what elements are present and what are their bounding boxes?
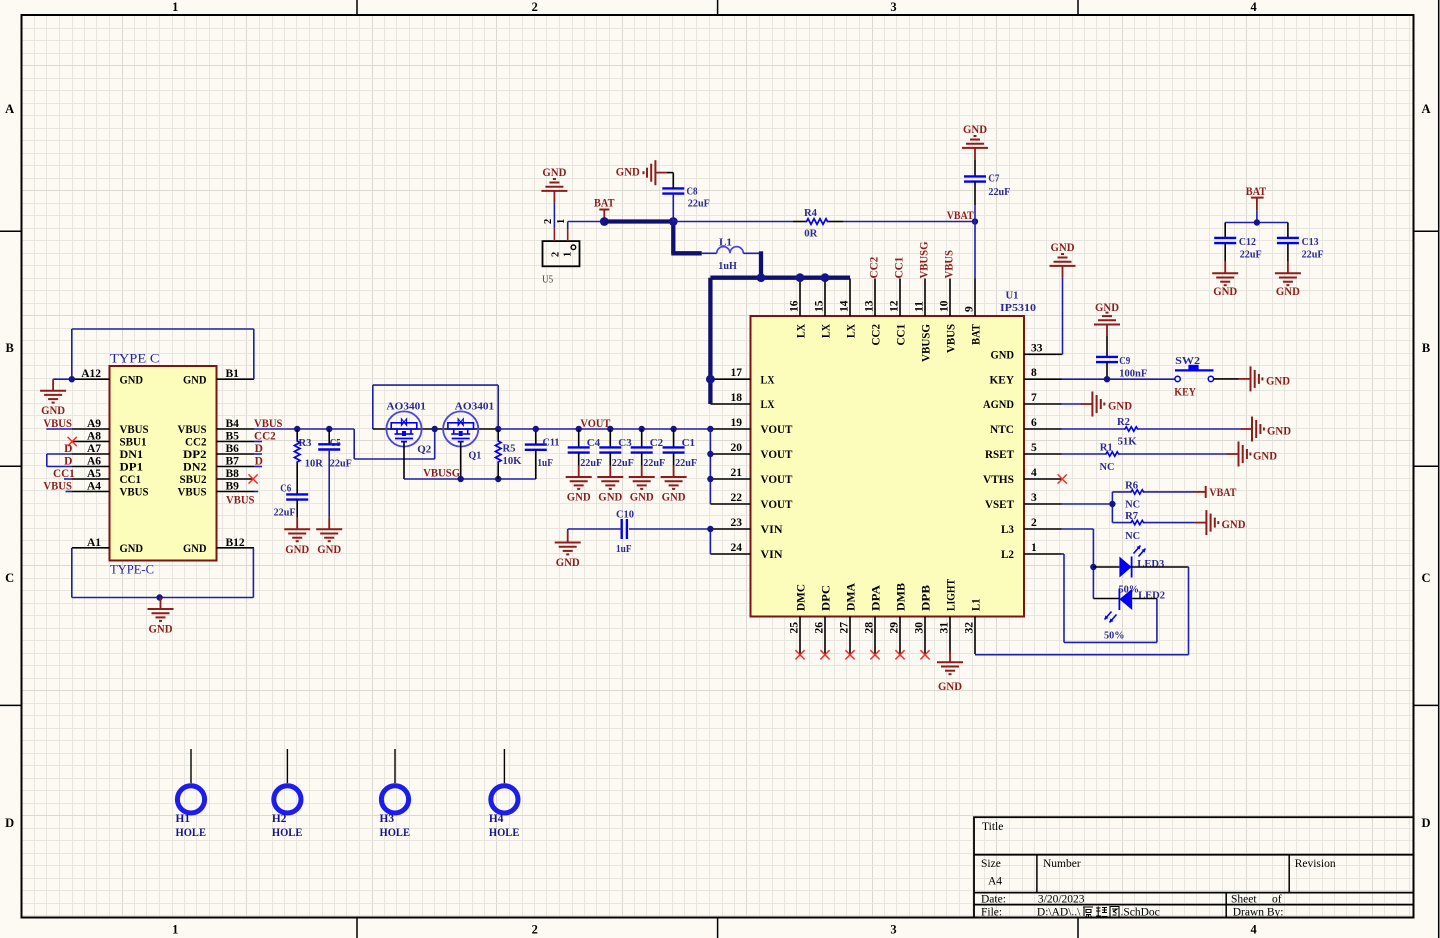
- svg-text:C9: C9: [1119, 355, 1130, 367]
- wire VIN: [629, 529, 710, 554]
- svg-text:B5: B5: [226, 431, 240, 443]
- svg-text:R1: R1: [1100, 442, 1113, 454]
- svg-text:C13: C13: [1302, 236, 1319, 248]
- svg-text:17: 17: [731, 367, 743, 379]
- junction C2 top: [639, 426, 645, 432]
- svg-text:C11: C11: [543, 437, 560, 449]
- wire C12-C13 bus: [1225, 222, 1288, 224]
- junction VBAT: [972, 218, 978, 224]
- hole H3: [380, 749, 411, 839]
- svg-text:22uF: 22uF: [580, 457, 602, 469]
- wire A7-A6 loop: [47, 454, 72, 467]
- svg-text:CC1: CC1: [894, 256, 906, 278]
- wire L3 to LEDs: [1062, 529, 1120, 599]
- svg-text:3: 3: [890, 0, 896, 14]
- svg-text:2: 2: [543, 219, 554, 224]
- svg-text:H4: H4: [489, 813, 504, 825]
- resistor R6 NC: [1112, 480, 1193, 511]
- svg-text:4: 4: [1250, 923, 1257, 937]
- svg-text:21: 21: [731, 467, 743, 479]
- ground GND under C13: [1275, 262, 1301, 298]
- svg-text:22uF: 22uF: [675, 457, 697, 469]
- wire Q2 gate: [403, 442, 405, 479]
- junction LED3 anode: [1090, 564, 1096, 570]
- capacitor C13 22uF: [1277, 223, 1324, 262]
- svg-text:IP5310: IP5310: [1000, 302, 1037, 314]
- svg-text:GND: GND: [183, 541, 207, 555]
- svg-text:L1: L1: [969, 599, 983, 612]
- svg-text:GND: GND: [542, 167, 566, 179]
- capacitor C8 22uF: [655, 173, 710, 222]
- svg-text:Revision: Revision: [1295, 858, 1336, 870]
- svg-text:GND: GND: [1266, 376, 1290, 388]
- svg-text:D: D: [255, 456, 263, 468]
- svg-text:5: 5: [1031, 442, 1037, 454]
- svg-text:32: 32: [964, 622, 976, 634]
- svg-text:L2: L2: [1001, 547, 1014, 561]
- svg-text:Size: Size: [981, 858, 1001, 870]
- power port BAT right: [1246, 186, 1267, 223]
- svg-text:16: 16: [789, 300, 801, 312]
- transistor Q2 AO3401: [386, 401, 431, 456]
- svg-text:A4: A4: [87, 481, 101, 493]
- svg-text:C8: C8: [687, 186, 698, 198]
- svg-text:Q1: Q1: [468, 450, 481, 462]
- svg-text:GND: GND: [556, 557, 580, 569]
- svg-text:L3: L3: [1001, 522, 1014, 536]
- svg-text:H2: H2: [272, 813, 287, 825]
- svg-text:NC: NC: [1125, 530, 1140, 542]
- svg-text:BAT: BAT: [594, 198, 615, 210]
- junction C8 bottom: [669, 217, 678, 226]
- wire drain-source line: [373, 428, 498, 430]
- capacitor C6 22uF: [274, 483, 309, 519]
- resistor R3 10R: [294, 429, 323, 494]
- net VBUSG rail: [404, 468, 536, 480]
- title block: [974, 817, 1414, 918]
- svg-text:27: 27: [839, 622, 851, 634]
- svg-text:11: 11: [914, 301, 926, 312]
- svg-text:GND: GND: [630, 492, 654, 504]
- net label VBUS (B9): [226, 492, 258, 507]
- junction VOUT pin19: [707, 426, 713, 432]
- svg-text:GND: GND: [1108, 401, 1132, 413]
- svg-text:2: 2: [1031, 517, 1037, 529]
- svg-text:1: 1: [172, 923, 178, 937]
- svg-text:23: 23: [731, 517, 743, 529]
- svg-text:VBUSG: VBUSG: [919, 324, 933, 362]
- svg-text:NTC: NTC: [990, 422, 1014, 436]
- wire VBUS B4 to MOSFETs: [254, 429, 435, 459]
- svg-text:RSET: RSET: [985, 447, 1014, 461]
- inductor L1 1uH: [702, 237, 761, 273]
- junction C1 top: [670, 426, 676, 432]
- svg-text:2: 2: [532, 923, 538, 937]
- svg-text:GND: GND: [317, 544, 341, 556]
- svg-text:GND: GND: [120, 541, 144, 555]
- svg-text:Number: Number: [1043, 858, 1081, 870]
- connector U5: [542, 219, 579, 286]
- ground GND under C12: [1212, 262, 1238, 298]
- switch SW2: [1174, 355, 1213, 399]
- net label CC1 (pin12): [894, 256, 906, 278]
- svg-text:1uF: 1uF: [537, 457, 553, 469]
- svg-text:C2: C2: [650, 437, 664, 449]
- junction pin21: [707, 476, 713, 482]
- wire Q2 drain loop: [373, 385, 498, 429]
- svg-text:VBAT: VBAT: [947, 210, 974, 222]
- svg-text:D:\AD\..\: D:\AD\..\: [1037, 907, 1081, 919]
- wire SW2 to GND: [1214, 378, 1251, 380]
- svg-text:TYPE-C: TYPE-C: [110, 563, 154, 577]
- wire VBAT to pin9: [974, 222, 976, 279]
- ground GND under C1: [661, 466, 687, 504]
- capacitor C10 1uF: [568, 509, 635, 555]
- wire VOUT bus: [498, 428, 710, 430]
- junction L1 bottom: [757, 273, 766, 282]
- junction C11 top: [533, 426, 539, 432]
- svg-text:10R: 10R: [305, 458, 324, 470]
- svg-text:C10: C10: [616, 509, 634, 521]
- junction A12: [69, 376, 75, 382]
- resistor R4 0R: [673, 207, 975, 240]
- svg-text:VBUSG: VBUSG: [423, 468, 460, 480]
- svg-text:22uF: 22uF: [643, 457, 665, 469]
- ground GND at pin33: [1050, 242, 1076, 354]
- svg-text:File:: File:: [981, 907, 1002, 919]
- ground GND below TYPE-C: [148, 598, 174, 636]
- capacitor C5 22uF: [318, 429, 352, 518]
- no-connect pin27: [845, 650, 854, 659]
- svg-text:AO3401: AO3401: [386, 401, 426, 413]
- svg-text:1: 1: [172, 0, 178, 14]
- junction VBUSG R5: [495, 476, 501, 482]
- svg-text:H3: H3: [380, 813, 395, 825]
- net label D (A7): [64, 443, 72, 455]
- resistor R5 10K: [495, 429, 522, 479]
- svg-text:A12: A12: [81, 368, 101, 380]
- wire A12-B1 gnd loop: [53, 329, 254, 379]
- svg-text:3/20/2023: 3/20/2023: [1038, 894, 1085, 906]
- svg-text:18: 18: [731, 392, 743, 404]
- hole H4: [489, 749, 520, 839]
- svg-text:GND: GND: [1267, 426, 1291, 438]
- no-connect B8: [249, 474, 258, 483]
- wire U5 pin1 to BAT bus: [568, 222, 605, 230]
- svg-text:GND: GND: [183, 372, 207, 386]
- svg-text:LX: LX: [844, 324, 858, 338]
- svg-text:28: 28: [864, 622, 876, 634]
- thick wire L1 to LX pins: [710, 251, 850, 404]
- power port BAT: [594, 198, 615, 222]
- svg-text:KEY: KEY: [990, 372, 1015, 386]
- svg-text:R3: R3: [299, 437, 312, 449]
- ground GND under C5: [316, 518, 342, 556]
- svg-text:A8: A8: [87, 431, 101, 443]
- svg-text:C3: C3: [618, 437, 632, 449]
- no-connect pin25: [795, 650, 804, 659]
- ground GND at R7: [1194, 510, 1245, 535]
- svg-text:22uF: 22uF: [1302, 249, 1324, 261]
- LED LED2: [1104, 589, 1166, 642]
- ground GND at AGND pin7: [1062, 392, 1133, 417]
- resistor R7 NC: [1112, 510, 1194, 542]
- svg-text:22uF: 22uF: [1240, 249, 1262, 261]
- ground GND at RSET: [1227, 442, 1278, 467]
- svg-text:GND: GND: [938, 681, 962, 693]
- svg-text:H1: H1: [176, 813, 191, 825]
- svg-text:B: B: [6, 341, 14, 355]
- svg-text:1: 1: [563, 252, 574, 257]
- svg-text:2: 2: [532, 0, 538, 14]
- capacitor C9 100nF: [1096, 336, 1148, 380]
- junction C5 top: [326, 426, 332, 432]
- svg-text:3: 3: [890, 923, 896, 937]
- svg-text:U5: U5: [542, 274, 553, 286]
- svg-text:DMC: DMC: [794, 584, 808, 611]
- svg-text:LED2: LED2: [1138, 590, 1165, 602]
- svg-text:VOUT: VOUT: [761, 447, 793, 461]
- svg-text:LX: LX: [819, 324, 833, 338]
- svg-text:VTHS: VTHS: [983, 472, 1014, 486]
- svg-text:C5: C5: [330, 437, 341, 449]
- svg-text:LX: LX: [761, 372, 775, 386]
- net label D (B7): [254, 456, 263, 468]
- svg-text:VOUT: VOUT: [761, 422, 793, 436]
- svg-text:A6: A6: [87, 456, 101, 468]
- svg-text:Title: Title: [982, 821, 1003, 833]
- net label D (A6): [64, 456, 72, 468]
- junction VSET: [1109, 501, 1115, 507]
- net label VOUT: [580, 418, 610, 430]
- svg-text:GND: GND: [1253, 451, 1277, 463]
- ground GND right of SW2: [1251, 366, 1291, 391]
- junction C4 top: [576, 426, 582, 432]
- svg-text:GND: GND: [991, 348, 1015, 362]
- svg-text:AO3401: AO3401: [455, 401, 495, 413]
- svg-text:100nF: 100nF: [1119, 368, 1147, 380]
- net label CC2 (B5): [254, 431, 276, 443]
- svg-text:50%: 50%: [1104, 630, 1125, 642]
- svg-text:C12: C12: [1239, 236, 1256, 248]
- junction BAT caps: [1254, 219, 1260, 225]
- svg-text:LX: LX: [794, 324, 808, 338]
- svg-text:B8: B8: [226, 468, 240, 480]
- LED LED3: [1119, 546, 1165, 596]
- net label VBUS (A4): [43, 481, 72, 493]
- wire KEY: [1062, 378, 1175, 380]
- svg-text:7: 7: [1031, 392, 1037, 404]
- ground GND at NTC: [1241, 417, 1292, 442]
- svg-text:A1: A1: [87, 537, 101, 549]
- net label CC1 (A5): [53, 468, 75, 480]
- connector TYPE C: [72, 352, 254, 577]
- svg-text:VIN: VIN: [761, 547, 783, 561]
- svg-text:VBUSG: VBUSG: [919, 241, 931, 278]
- svg-text:22uF: 22uF: [274, 507, 296, 519]
- junction BAT bus left: [600, 217, 609, 226]
- svg-text:9: 9: [964, 306, 976, 312]
- svg-text:6: 6: [1031, 417, 1037, 429]
- svg-text:Date:: Date:: [981, 894, 1006, 906]
- ground GND left of C10: [555, 529, 581, 569]
- svg-text:DMA: DMA: [844, 583, 858, 611]
- svg-text:GND: GND: [1095, 302, 1119, 314]
- no-connect pin28: [870, 650, 879, 659]
- svg-text:15: 15: [814, 300, 826, 312]
- svg-text:L1: L1: [719, 237, 732, 249]
- net label D (B6): [254, 443, 263, 455]
- svg-text:DPC: DPC: [819, 585, 833, 611]
- svg-text:LIGHT: LIGHT: [944, 579, 958, 611]
- svg-text:D: D: [1421, 816, 1430, 830]
- svg-text:24: 24: [731, 542, 743, 554]
- capacitor C12 22uF: [1214, 223, 1262, 262]
- junction Q1-R5: [495, 426, 501, 432]
- junction pin17: [706, 375, 715, 384]
- no-connect pin30: [920, 650, 929, 659]
- svg-text:VBAT: VBAT: [1209, 487, 1236, 499]
- svg-text:22uF: 22uF: [988, 186, 1010, 198]
- svg-text:C6: C6: [280, 483, 291, 495]
- svg-text:26: 26: [814, 622, 826, 634]
- svg-text:LED3: LED3: [1137, 558, 1164, 570]
- svg-text:25: 25: [789, 622, 801, 634]
- svg-text:KEY: KEY: [1174, 387, 1196, 399]
- svg-text:GND: GND: [616, 166, 640, 178]
- svg-text:R2: R2: [1117, 416, 1130, 428]
- ground GND under C6: [284, 518, 310, 556]
- svg-text:DPB: DPB: [919, 585, 933, 611]
- svg-text:LX: LX: [761, 397, 775, 411]
- svg-text:B9: B9: [226, 481, 240, 493]
- wire VOUT pins vertical: [709, 429, 711, 504]
- svg-text:HOLE: HOLE: [380, 827, 411, 839]
- svg-text:A9: A9: [87, 418, 101, 430]
- capacitor C11 1uF: [525, 429, 560, 479]
- ground GND left of C8: [616, 160, 656, 185]
- svg-text:R6: R6: [1125, 480, 1138, 492]
- svg-text:VIN: VIN: [761, 522, 783, 536]
- svg-text:VBUS: VBUS: [43, 481, 72, 493]
- no-connect VTHS pin4: [1058, 474, 1067, 483]
- svg-text:1uF: 1uF: [616, 543, 632, 555]
- capacitor C7 22uF: [964, 159, 1011, 221]
- svg-text:29: 29: [889, 622, 901, 634]
- svg-text:A5: A5: [87, 468, 101, 480]
- svg-text:.SchDoc: .SchDoc: [1121, 907, 1160, 919]
- svg-text:30: 30: [914, 622, 926, 634]
- ground GND at A12: [40, 379, 66, 417]
- svg-text:R5: R5: [503, 443, 516, 455]
- svg-text:A7: A7: [87, 443, 101, 455]
- junction C3 top: [607, 426, 613, 432]
- svg-text:NC: NC: [1125, 499, 1140, 511]
- no-connect pin26: [820, 650, 829, 659]
- svg-text:51K: 51K: [1118, 436, 1137, 448]
- svg-text:HOLE: HOLE: [489, 827, 520, 839]
- op-amp U1 IP5310 IC body: [710, 279, 1061, 655]
- net label VBUSG (pin11): [919, 241, 931, 278]
- svg-text:SW2: SW2: [1175, 355, 1201, 367]
- svg-text:D: D: [5, 816, 14, 830]
- svg-text:CC1: CC1: [53, 468, 75, 480]
- svg-text:8: 8: [1031, 367, 1037, 379]
- svg-text:HOLE: HOLE: [272, 827, 303, 839]
- svg-text:GND: GND: [1222, 519, 1246, 531]
- svg-text:HOLE: HOLE: [176, 827, 207, 839]
- svg-text:Drawn By:: Drawn By:: [1233, 907, 1284, 919]
- ground GND under C4: [566, 466, 592, 504]
- svg-text:Q2: Q2: [417, 444, 431, 456]
- hole H2: [272, 749, 303, 839]
- power port VBAT right: [1193, 486, 1237, 499]
- wire L2 loop: [1062, 554, 1157, 642]
- svg-text:of: of: [1272, 894, 1282, 906]
- no-connect pin29: [895, 650, 904, 659]
- ground GND under C3: [597, 466, 623, 504]
- svg-text:D: D: [255, 443, 263, 455]
- ground GND above C9: [1094, 302, 1120, 336]
- svg-text:GND: GND: [598, 492, 622, 504]
- svg-text:A: A: [1421, 102, 1430, 116]
- svg-text:B12: B12: [226, 537, 245, 549]
- svg-text:B7: B7: [226, 456, 240, 468]
- junction pin20: [707, 451, 713, 457]
- svg-text:GND: GND: [1213, 286, 1237, 298]
- svg-text:CC2: CC2: [869, 256, 881, 278]
- svg-text:VBUS: VBUS: [178, 485, 207, 499]
- svg-text:CC2: CC2: [869, 324, 883, 346]
- svg-text:10K: 10K: [503, 455, 522, 467]
- svg-text:GND: GND: [662, 492, 686, 504]
- svg-text:GND: GND: [285, 544, 309, 556]
- capacitor C2 22uF: [631, 429, 666, 469]
- svg-text:GND: GND: [120, 372, 144, 386]
- wire LED3 anode: [1093, 566, 1119, 568]
- svg-text:33: 33: [1031, 342, 1043, 354]
- svg-text:VBUS: VBUS: [226, 495, 255, 507]
- svg-text:GND: GND: [149, 624, 173, 636]
- svg-text:Sheet: Sheet: [1231, 894, 1257, 906]
- wire Q1 gate: [460, 442, 462, 479]
- ground GND above C7: [962, 124, 988, 160]
- svg-text:10: 10: [939, 300, 951, 312]
- svg-text:GND: GND: [1276, 286, 1300, 298]
- svg-text:1uH: 1uH: [718, 260, 737, 272]
- svg-text:A4: A4: [988, 876, 1002, 888]
- net label VBUS (B4): [254, 418, 283, 430]
- svg-text:DMB: DMB: [894, 583, 908, 611]
- svg-text:22: 22: [731, 492, 743, 504]
- no-connect A8: [68, 437, 77, 446]
- svg-text:19: 19: [731, 417, 743, 429]
- svg-text:2: 2: [551, 252, 562, 257]
- svg-text:CC1: CC1: [894, 324, 908, 346]
- svg-text:12: 12: [889, 300, 901, 312]
- svg-text:AGND: AGND: [983, 397, 1014, 411]
- svg-text:C: C: [5, 571, 14, 585]
- capacitor C3 22uF: [599, 429, 634, 469]
- svg-text:VOUT: VOUT: [761, 497, 793, 511]
- svg-text:22uF: 22uF: [688, 198, 710, 210]
- svg-text:1: 1: [556, 219, 567, 224]
- junction VBUSG Q1: [458, 476, 464, 482]
- net label VBAT: [947, 210, 974, 222]
- svg-text:B6: B6: [226, 443, 240, 455]
- svg-text:0R: 0R: [804, 228, 818, 240]
- svg-text:22uF: 22uF: [330, 458, 352, 470]
